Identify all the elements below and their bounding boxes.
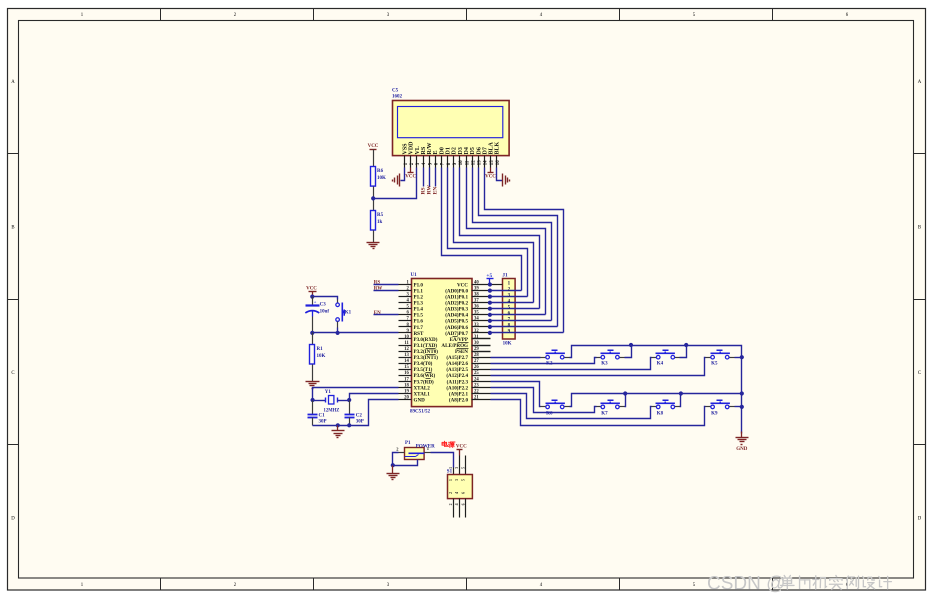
connector P1 POWER <box>405 448 425 460</box>
pushbutton K3 <box>601 353 620 355</box>
wire R5 to ground <box>373 231 375 243</box>
wire to crystal <box>313 400 326 402</box>
wire XTAL1 <box>350 394 399 401</box>
MCU right pins 40-21 <box>472 284 491 286</box>
svg-text:+: + <box>314 299 317 304</box>
svg-text:P1.6: P1.6 <box>414 319 424 325</box>
svg-text:EN: EN <box>433 187 439 195</box>
svg-text:26: 26 <box>474 365 479 370</box>
svg-text:A: A <box>11 80 15 85</box>
svg-text:5: 5 <box>462 479 466 481</box>
svg-text:10uf: 10uf <box>320 310 330 315</box>
capacitor C3 10uf <box>306 304 320 306</box>
pin name overlines <box>426 348 436 350</box>
pushbutton K4 <box>656 353 675 355</box>
svg-text:D0: D0 <box>439 147 445 154</box>
svg-text:RW: RW <box>427 185 433 195</box>
wire RST to U1 pin9 <box>313 332 399 334</box>
svg-text:10: 10 <box>459 160 464 165</box>
wire P2.6 to K3 <box>491 358 597 364</box>
wire RS from LCD <box>423 168 425 187</box>
node VCC-C3-K1 <box>310 295 314 299</box>
svg-text:S1: S1 <box>447 470 453 475</box>
wire K9 to rail <box>735 406 742 408</box>
svg-text:30P: 30P <box>319 420 327 425</box>
svg-text:D5: D5 <box>470 147 476 154</box>
svg-text:4: 4 <box>455 492 459 494</box>
resistor R6 10K <box>371 167 376 187</box>
svg-text:XTAL2: XTAL2 <box>414 385 431 391</box>
svg-text:21: 21 <box>474 395 479 400</box>
wire EN to pin6 <box>374 314 399 316</box>
ground below crystal <box>337 426 339 431</box>
svg-text:P3.7(RD): P3.7(RD) <box>414 378 435 385</box>
svg-text:11: 11 <box>465 160 470 165</box>
svg-text:(A11)P2.3: (A11)P2.3 <box>447 378 469 385</box>
wire ALE pin30 <box>472 345 491 347</box>
svg-text:C: C <box>11 371 14 376</box>
pushbutton K6 <box>546 403 565 405</box>
svg-text:36: 36 <box>474 305 479 310</box>
wire PSEN pin29 <box>472 351 491 353</box>
svg-text:(AD0)P0.0: (AD0)P0.0 <box>445 288 468 295</box>
svg-text:14: 14 <box>404 359 409 364</box>
svg-text:D4: D4 <box>464 147 470 154</box>
capacitor C1 30P <box>312 401 314 415</box>
svg-text:Y1: Y1 <box>325 390 332 395</box>
svg-text:(A9)P2.1: (A9)P2.1 <box>449 390 469 397</box>
svg-text:33: 33 <box>474 323 479 328</box>
wire P2.2 to K7 <box>491 388 597 413</box>
capacitor C2 30P <box>349 401 351 415</box>
svg-text:12MHZ: 12MHZ <box>324 408 340 413</box>
pushbutton K8 <box>656 403 675 405</box>
svg-text:39: 39 <box>474 287 479 292</box>
svg-text:P3.0(RXD): P3.0(RXD) <box>414 336 438 343</box>
ground below R5 <box>367 242 380 244</box>
svg-text:VL: VL <box>415 146 421 154</box>
svg-text:28: 28 <box>474 353 479 358</box>
svg-text:12: 12 <box>404 347 409 352</box>
svg-text:K9: K9 <box>711 411 718 416</box>
svg-text:VDD: VDD <box>409 141 415 155</box>
svg-text:R5: R5 <box>377 213 384 218</box>
wire D5 LCD to P0.5 <box>473 168 552 321</box>
svg-text:89C51/52: 89C51/52 <box>410 409 431 414</box>
VCC at LCD VDD <box>410 168 412 173</box>
frame column dividers and numbers <box>160 9 162 21</box>
svg-text:D6: D6 <box>476 147 482 154</box>
svg-text:25: 25 <box>474 371 479 376</box>
svg-text:11: 11 <box>404 341 409 346</box>
wire K7 riser <box>625 394 626 407</box>
svg-text:P3.1(TXD): P3.1(TXD) <box>414 342 438 349</box>
node K9 rail <box>740 405 744 409</box>
svg-text:4: 4 <box>455 503 459 505</box>
svg-text:C5: C5 <box>392 89 399 94</box>
wire P2.7 to K2 <box>491 357 541 359</box>
svg-text:VCC: VCC <box>306 287 317 292</box>
wire P2.3 to K6 <box>491 382 541 407</box>
crystal Y1 12MHZ <box>325 398 327 403</box>
wire P2.5 to K4 <box>491 358 652 370</box>
svg-text:1602: 1602 <box>392 94 403 99</box>
junction VL node <box>371 196 375 200</box>
svg-text:31: 31 <box>474 335 479 340</box>
svg-text:(AD4)P0.4: (AD4)P0.4 <box>445 312 468 319</box>
svg-text:12: 12 <box>471 160 476 165</box>
svg-text:(A15)P2.7: (A15)P2.7 <box>446 354 468 361</box>
VCC at LCD BLA <box>490 168 492 173</box>
svg-text:3: 3 <box>455 479 459 481</box>
svg-text:GND: GND <box>414 397 426 403</box>
bottom row common rail <box>570 394 742 407</box>
svg-text:R6: R6 <box>377 169 384 174</box>
resistor network J1 10K <box>503 279 516 340</box>
node ground tap <box>336 423 340 427</box>
wire node to R1 <box>312 333 314 345</box>
svg-text:16: 16 <box>404 371 409 376</box>
svg-text:A: A <box>918 80 922 85</box>
svg-text:16: 16 <box>496 160 501 165</box>
node K4 rail <box>684 343 688 347</box>
node rail joins <box>740 391 744 395</box>
J1 row wires and junctions <box>491 284 503 286</box>
svg-text:B: B <box>11 226 14 231</box>
wire P2.0 to K9 <box>491 400 706 426</box>
svg-text:(A14)P2.6: (A14)P2.6 <box>446 360 468 367</box>
wire pin1 to S1 <box>431 453 454 468</box>
svg-text:10K: 10K <box>377 176 386 181</box>
svg-text:VSS: VSS <box>403 143 409 155</box>
svg-text:K4: K4 <box>657 362 664 367</box>
wire D2 LCD to P0.2 <box>454 168 534 303</box>
svg-text:24: 24 <box>474 377 479 382</box>
svg-text:(AD7)P0.7: (AD7)P0.7 <box>445 330 468 337</box>
pushbutton K1 <box>336 303 340 307</box>
svg-text:30P: 30P <box>356 420 364 425</box>
svg-text:E: E <box>433 150 439 154</box>
S1 pin 3 wire <box>459 456 461 475</box>
svg-text:13: 13 <box>404 353 409 358</box>
wire EA pin31 <box>472 338 491 340</box>
svg-text:P3.6(WR): P3.6(WR) <box>414 372 436 379</box>
svg-text:P1.2: P1.2 <box>414 295 424 301</box>
svg-text:K5: K5 <box>711 362 718 367</box>
svg-text:34: 34 <box>474 317 479 322</box>
svg-text:1: 1 <box>449 479 453 481</box>
svg-text:J1: J1 <box>502 272 508 278</box>
svg-text:D3: D3 <box>458 147 464 154</box>
pushbutton K5 <box>711 353 730 355</box>
wire XTAL2 <box>313 388 399 401</box>
svg-text:(AD6)P0.6: (AD6)P0.6 <box>445 324 468 331</box>
svg-text:VCC: VCC <box>457 282 468 288</box>
switch S1 <box>448 475 473 499</box>
svg-text:(A13)P2.5: (A13)P2.5 <box>446 366 468 373</box>
svg-text:D: D <box>11 516 15 521</box>
ground at LCD BLK <box>502 174 504 187</box>
svg-text:VCC: VCC <box>368 144 379 149</box>
svg-text:K6: K6 <box>546 411 553 416</box>
svg-text:10K: 10K <box>317 354 326 359</box>
wire R1 to ground <box>312 365 314 382</box>
svg-text:RS: RS <box>420 187 426 194</box>
svg-text:B: B <box>918 226 921 231</box>
svg-text:RS: RS <box>421 146 427 154</box>
svg-text:RST: RST <box>414 331 425 337</box>
svg-text:P1: P1 <box>405 441 411 446</box>
MCU U1 body <box>412 279 473 407</box>
svg-text:(A8)P2.0: (A8)P2.0 <box>449 396 469 403</box>
svg-text:CSDN @: CSDN @ <box>707 573 785 594</box>
svg-text:1: 1 <box>449 467 453 469</box>
svg-text:15: 15 <box>404 365 409 370</box>
svg-text:C: C <box>918 371 921 376</box>
wire K1 bottom <box>337 322 339 328</box>
svg-text:14: 14 <box>484 160 489 165</box>
pushbutton K9 <box>711 403 730 405</box>
svg-text:27: 27 <box>474 359 479 364</box>
wire pin2 to ground <box>393 453 399 466</box>
wire crystal right <box>338 400 350 402</box>
svg-text:40: 40 <box>474 280 479 285</box>
svg-text:2: 2 <box>449 503 453 505</box>
svg-text:17: 17 <box>404 377 409 382</box>
wire D0 LCD to P0.0 <box>442 168 522 291</box>
svg-text:P1.0: P1.0 <box>414 282 424 288</box>
wire ground loop <box>393 460 418 466</box>
svg-text:BLK: BLK <box>495 141 501 154</box>
svg-text:C3: C3 <box>320 303 327 308</box>
svg-text:D1: D1 <box>446 147 452 154</box>
svg-text:15: 15 <box>490 160 495 165</box>
node K7 rail <box>623 391 627 395</box>
LCD module C5 1602 <box>393 101 510 156</box>
svg-text:10K: 10K <box>503 342 512 347</box>
node K5 rail <box>740 355 744 359</box>
LCD pins 1-16 <box>404 156 406 168</box>
node K3 rail <box>629 343 633 347</box>
svg-text:ALE/PROG: ALE/PROG <box>441 343 468 349</box>
svg-text:VCC: VCC <box>405 175 416 180</box>
wire RW to pin2 <box>374 290 399 292</box>
svg-text:13: 13 <box>478 160 483 165</box>
svg-text:3: 3 <box>455 467 459 469</box>
wire D6 LCD to P0.6 <box>479 168 558 327</box>
resistor R5 1k <box>371 211 376 231</box>
svg-text:(AD2)P0.2: (AD2)P0.2 <box>445 300 468 307</box>
svg-text:C1: C1 <box>319 414 326 419</box>
svg-text:K7: K7 <box>601 411 608 416</box>
wire to K1 top <box>313 297 338 300</box>
svg-text:P3.3(INT1): P3.3(INT1) <box>414 354 439 361</box>
wire BLK to ground <box>497 168 503 181</box>
svg-text:(AD3)P0.3: (AD3)P0.3 <box>445 306 468 313</box>
svg-text:D2: D2 <box>452 147 458 154</box>
svg-text:R1: R1 <box>317 347 324 352</box>
ground below R1 <box>306 381 320 383</box>
wire K8 riser <box>680 394 681 407</box>
svg-text:K2: K2 <box>546 362 553 367</box>
svg-text:38: 38 <box>474 293 479 298</box>
MCU left pins 1-20 <box>399 284 412 286</box>
S1 pin 5 wire <box>465 456 467 475</box>
ground at P1 <box>392 466 394 474</box>
wire GND pin20 <box>350 400 399 426</box>
wire K5 to rail <box>735 357 742 359</box>
svg-text:U1: U1 <box>411 273 418 278</box>
wire K4 riser <box>680 346 687 358</box>
svg-text:(A12)P2.4: (A12)P2.4 <box>446 372 468 379</box>
svg-text:GND: GND <box>736 447 748 452</box>
svg-text:K8: K8 <box>657 411 664 416</box>
svg-text:P3.2(INT0): P3.2(INT0) <box>414 348 439 355</box>
wire R6 to R5 <box>373 187 375 211</box>
svg-text:(AD5)P0.5: (AD5)P0.5 <box>445 318 468 325</box>
top row common rail <box>570 346 742 434</box>
svg-text:32: 32 <box>474 329 479 334</box>
node crystal left <box>311 398 315 402</box>
svg-text:BLA: BLA <box>489 141 495 154</box>
wire P2.4 to K5 <box>491 358 706 376</box>
wire K3 riser <box>625 346 632 358</box>
svg-text:18: 18 <box>404 383 409 388</box>
wire VL to divider <box>374 168 417 199</box>
ground keypad <box>741 432 743 438</box>
junction RST node <box>310 331 314 335</box>
pushbutton K2 <box>546 353 565 355</box>
svg-text:22: 22 <box>474 389 479 394</box>
node K8 rail <box>679 391 683 395</box>
svg-text:(AD1)P0.1: (AD1)P0.1 <box>445 294 468 301</box>
wire RS to pin1 <box>374 284 399 286</box>
svg-text:POWER: POWER <box>416 444 435 449</box>
S1 bottom pins <box>453 499 455 518</box>
svg-text:(A10)P2.2: (A10)P2.2 <box>446 384 468 391</box>
svg-text:5: 5 <box>462 467 466 469</box>
svg-text:R/W: R/W <box>427 143 433 155</box>
svg-text:D7: D7 <box>482 147 488 154</box>
wire D3 LCD to P0.3 <box>460 168 540 309</box>
wire EN from LCD <box>435 168 437 187</box>
svg-text:P3.4(T0): P3.4(T0) <box>414 360 433 367</box>
resistor R1 10K <box>310 345 315 365</box>
svg-text:D: D <box>918 516 922 521</box>
frame row dividers and letters <box>8 153 19 155</box>
svg-text:1k: 1k <box>377 220 383 225</box>
label power chinese <box>442 442 447 445</box>
wire VSS to ground <box>401 168 405 181</box>
pushbutton K7 <box>601 403 620 405</box>
svg-text:K1: K1 <box>345 311 352 316</box>
node crystal right <box>347 398 351 402</box>
svg-text:20: 20 <box>404 395 409 400</box>
svg-text:PSEN: PSEN <box>455 349 468 355</box>
LCD screen area <box>398 107 503 138</box>
svg-text:23: 23 <box>474 383 479 388</box>
wire D1 LCD to P0.1 <box>448 168 528 297</box>
ground at LCD VSS <box>399 174 401 187</box>
svg-text:K3: K3 <box>601 362 608 367</box>
svg-text:10: 10 <box>404 335 409 340</box>
svg-text:37: 37 <box>474 299 479 304</box>
wire D4 LCD to P0.4 <box>467 168 546 315</box>
svg-text:P1.4: P1.4 <box>414 307 424 313</box>
wire RW from LCD <box>429 168 431 187</box>
svg-text:C2: C2 <box>356 414 363 419</box>
node P1 ground <box>391 463 395 467</box>
svg-text:2: 2 <box>449 492 453 494</box>
svg-text:35: 35 <box>474 311 479 316</box>
wire crystal ground rail <box>313 425 350 427</box>
wire D7 LCD to P0.7 <box>485 168 564 333</box>
svg-text:6: 6 <box>462 492 466 494</box>
wire P2.1 to K8 <box>491 394 652 419</box>
svg-text:VCC: VCC <box>485 175 496 180</box>
svg-text:19: 19 <box>404 389 409 394</box>
